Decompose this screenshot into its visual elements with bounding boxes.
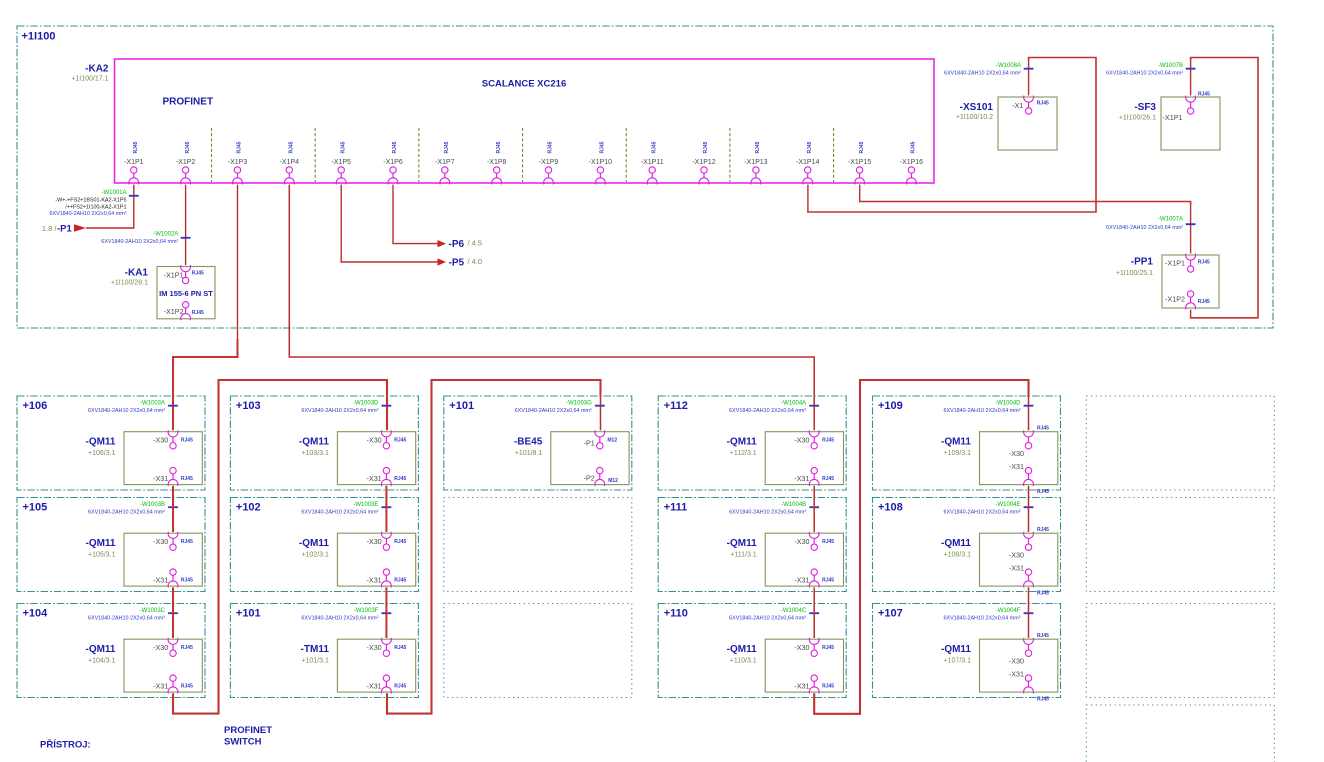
svg-text:-X30: -X30 (794, 537, 809, 546)
svg-text:-X30: -X30 (367, 643, 382, 652)
svg-text:-W1001A: -W1001A (101, 190, 126, 196)
svg-text:+1I100/28.1: +1I100/28.1 (111, 279, 148, 286)
switch port -X1P14 (RJ45) (796, 141, 819, 184)
svg-text:6XV1840-2AH10 2X2x0,64 mm²: 6XV1840-2AH10 2X2x0,64 mm² (101, 239, 178, 245)
svg-text:6XV1840-2AH10 2X2x0,64 mm²: 6XV1840-2AH10 2X2x0,64 mm² (944, 71, 1021, 77)
empty location box column6 row1 (1086, 396, 1274, 490)
svg-text:6XV1840-2AH10 2X2x0,64 mm²: 6XV1840-2AH10 2X2x0,64 mm² (1106, 225, 1183, 231)
svg-text:RJ45: RJ45 (181, 645, 193, 651)
svg-text:RJ45: RJ45 (600, 141, 606, 153)
label +104 (23, 608, 49, 620)
label +105 (23, 502, 48, 514)
port group separator 6 (729, 128, 731, 182)
connector -BE45 -P1 input (584, 430, 618, 449)
svg-text:RJ45: RJ45 (1198, 259, 1210, 265)
connector -QM11 -X30 input (794, 430, 834, 449)
svg-text:RJ45: RJ45 (444, 141, 450, 153)
cable -W1003G marker (515, 400, 605, 414)
svg-text:-X31: -X31 (1009, 462, 1024, 471)
label -TM11 +101 (301, 644, 330, 664)
cable -W1007A marker (1106, 216, 1196, 231)
location box +101 (444, 396, 632, 490)
device -QM11 +107 body (980, 639, 1058, 692)
svg-text:-W+-+FS2+1BS01-KA2-X1P5: -W+-+FS2+1BS01-KA2-X1P5 (55, 197, 126, 203)
caption PROFINET SWITCH (224, 725, 272, 748)
svg-text:-X1P3: -X1P3 (228, 159, 248, 166)
wire -X1P3 to +106 -QM11 -X30 (173, 339, 238, 430)
svg-text:+1I100/10.2: +1I100/10.2 (956, 114, 993, 121)
location box +112 (658, 396, 846, 490)
label -QM11 +106 (85, 437, 115, 457)
cable -W1007B marker (1106, 63, 1196, 76)
svg-text:6XV1840-2AH10 2X2x0,64 mm²: 6XV1840-2AH10 2X2x0,64 mm² (49, 211, 126, 217)
svg-text:PROFINET: PROFINET (224, 725, 272, 736)
svg-text:-W1004B: -W1004B (781, 502, 806, 508)
device -QM11 +102 body (337, 533, 415, 586)
svg-text:+112: +112 (664, 400, 688, 412)
cable -W1004F marker (943, 608, 1033, 622)
cable -W1002A marker (101, 232, 190, 246)
switch port -X1P6 (RJ45) (383, 141, 403, 184)
svg-text:RJ45: RJ45 (1198, 299, 1210, 305)
wire descent into +101 -BE45 -P1 (600, 396, 602, 430)
svg-text:6XV1840-2AH10 2X2x0,64 mm²: 6XV1840-2AH10 2X2x0,64 mm² (301, 616, 378, 622)
connector -KA1 -X1P2 (164, 302, 204, 321)
svg-text:RJ45: RJ45 (192, 271, 204, 277)
label -QM11 +108 (941, 538, 971, 558)
location box +106 (17, 396, 205, 490)
device -QM11 +106 body (124, 432, 202, 485)
svg-text:RJ45: RJ45 (1037, 590, 1049, 596)
svg-text:-P1: -P1 (584, 439, 595, 448)
svg-text:-W1004F: -W1004F (996, 608, 1021, 614)
label -KA1 (125, 268, 149, 279)
connector -QM11 -X31 output (794, 569, 834, 588)
svg-text:-P5: -P5 (449, 258, 465, 269)
svg-text:+106/3.1: +106/3.1 (88, 450, 116, 457)
svg-text:+110: +110 (664, 608, 688, 620)
empty location box column6 row3 (1086, 604, 1274, 698)
svg-text:+104/3.1: +104/3.1 (88, 657, 116, 664)
label -PP1 (1131, 257, 1154, 268)
svg-text:-W1003E: -W1003E (353, 502, 378, 508)
svg-text:-W1007A: -W1007A (1158, 216, 1183, 222)
location box +107 (873, 604, 1061, 698)
label -QM11 +110 (727, 644, 757, 664)
svg-text:-KA2: -KA2 (85, 64, 109, 75)
svg-text:+101: +101 (236, 608, 261, 620)
svg-text:+101/3.1: +101/3.1 (301, 657, 329, 664)
location box +1I100 (17, 26, 1273, 328)
label +111 (664, 502, 688, 514)
connector -QM11 -X30 input (1009, 633, 1049, 666)
switch port -X1P8 (RJ45) (487, 141, 507, 184)
cable -W1001A marker (49, 190, 138, 217)
svg-text:RJ45: RJ45 (1037, 100, 1049, 106)
svg-text:RJ45: RJ45 (1037, 696, 1049, 702)
connector -QM11 -X31 output (1009, 670, 1049, 703)
device -QM11 +109 body (980, 432, 1058, 485)
svg-text:-X1P2: -X1P2 (1165, 295, 1185, 304)
svg-text:-W1002A: -W1002A (153, 232, 178, 238)
label +110 (664, 608, 688, 620)
cross-reference +1I100/28.1 (111, 279, 148, 286)
svg-text:PROFINET: PROFINET (163, 97, 214, 108)
switch port -X1P9 (RJ45) (539, 141, 559, 184)
port group separator 3 (418, 128, 420, 182)
svg-text:6XV1840-2AH10 2X2x0,64 mm²: 6XV1840-2AH10 2X2x0,64 mm² (729, 616, 806, 622)
connector -SF3 -X1P1 (1163, 92, 1211, 122)
svg-text:+1I100: +1I100 (22, 31, 56, 43)
svg-text:-QM11: -QM11 (941, 644, 971, 655)
label -XS101 (960, 102, 994, 113)
cable -W1004C marker (729, 608, 819, 622)
svg-text:-QM11: -QM11 (85, 538, 115, 549)
svg-text:-QM11: -QM11 (299, 538, 329, 549)
connector -QM11 -X30 input (153, 638, 193, 657)
connector -QM11 -X31 output (1009, 564, 1049, 597)
connector -QM11 -X31 output (153, 675, 193, 694)
svg-text:-X30: -X30 (1009, 449, 1024, 458)
svg-text:-X31: -X31 (794, 682, 809, 691)
svg-text:-X1P10: -X1P10 (589, 159, 612, 166)
label +112 (664, 400, 688, 412)
svg-text:-W1003B: -W1003B (140, 502, 165, 508)
svg-text:-X1P9: -X1P9 (539, 159, 559, 166)
svg-text:-W1008A: -W1008A (996, 63, 1021, 69)
svg-text:6XV1840-2AH10 2X2x0,64 mm²: 6XV1840-2AH10 2X2x0,64 mm² (729, 408, 806, 414)
connector -TM11 -X30 input (367, 638, 407, 657)
svg-text:-QM11: -QM11 (299, 437, 329, 448)
connector -PP1 -X1P1 (1165, 254, 1210, 273)
svg-text:RJ45: RJ45 (1037, 425, 1049, 431)
svg-text:+111: +111 (664, 502, 688, 514)
svg-text:IM 155-6 PN ST: IM 155-6 PN ST (159, 289, 213, 298)
svg-text:+1I100/17.1: +1I100/17.1 (71, 76, 108, 83)
svg-text:PŘÍSTROJ:: PŘÍSTROJ: (40, 739, 91, 751)
ethernet switch -KA2 SCALANCE XC216 body (115, 59, 935, 183)
svg-text:+106: +106 (23, 400, 48, 412)
svg-text:+1I100/26.1: +1I100/26.1 (1119, 115, 1156, 122)
label -P5 / 4.0 (449, 257, 483, 269)
label +107 (878, 608, 903, 620)
svg-text:-X1P1: -X1P1 (124, 159, 144, 166)
label -QM11 +107 (941, 644, 971, 664)
svg-text:-QM11: -QM11 (727, 538, 757, 549)
label +106 (23, 400, 48, 412)
svg-text:-P6: -P6 (449, 239, 465, 250)
label 1.8 / -P1 (42, 224, 73, 235)
location box +111 (658, 498, 846, 592)
svg-text:RJ45: RJ45 (755, 141, 761, 153)
switch port -X1P12 (RJ45) (692, 141, 715, 184)
wire +104 -X31 to +103 -X30 (riser) (173, 380, 387, 714)
svg-text:RJ45: RJ45 (822, 684, 834, 690)
svg-text:RJ45: RJ45 (496, 141, 502, 153)
device -XS101 body (998, 97, 1057, 150)
svg-text:-X31: -X31 (1009, 670, 1024, 679)
device -TM11 +101 body (337, 639, 415, 692)
arrow interruption point -P6 (438, 240, 447, 247)
svg-text:6XV1840-2AH10 2X2x0,64 mm²: 6XV1840-2AH10 2X2x0,64 mm² (1106, 71, 1183, 77)
empty location box column6 row2 (1086, 498, 1274, 592)
port group separator 2 (314, 128, 316, 182)
label -P6 / 4.5 (449, 239, 483, 251)
svg-text:RJ45: RJ45 (822, 476, 834, 482)
svg-text:+112/3.1: +112/3.1 (730, 450, 757, 457)
switch port -X1P13 (RJ45) (744, 141, 767, 184)
label SCALANCE XC216 (482, 79, 566, 90)
connector -QM11 -X30 input (1009, 527, 1049, 560)
svg-text:-X30: -X30 (367, 537, 382, 546)
svg-text:RJ45: RJ45 (703, 141, 709, 153)
connector -QM11 -X31 output (1009, 462, 1049, 495)
svg-text:-X1P2: -X1P2 (176, 159, 196, 166)
svg-text:+101/8.1: +101/8.1 (515, 450, 543, 457)
svg-text:-X30: -X30 (153, 537, 168, 546)
svg-text:+109/3.1: +109/3.1 (944, 450, 972, 457)
svg-text:-X1P15: -X1P15 (848, 159, 871, 166)
svg-text:-XS101: -XS101 (960, 102, 994, 113)
wire -PP1 -X1P2 stub (1190, 310, 1192, 318)
svg-text:-X1P4: -X1P4 (280, 159, 300, 166)
svg-text:RJ45: RJ45 (394, 578, 406, 584)
svg-text:-QM11: -QM11 (941, 538, 971, 549)
svg-text:RJ45: RJ45 (651, 141, 657, 153)
svg-text:RJ45: RJ45 (394, 539, 406, 545)
svg-text:RJ45: RJ45 (1037, 527, 1049, 533)
svg-text:-X31: -X31 (1009, 564, 1024, 573)
svg-text:-PP1: -PP1 (1131, 257, 1154, 268)
location box +110 (658, 604, 846, 698)
svg-text:RJ45: RJ45 (822, 578, 834, 584)
svg-text:-X1P11: -X1P11 (641, 159, 664, 166)
svg-text:6XV1840-2AH10 2X2x0,64 mm²: 6XV1840-2AH10 2X2x0,64 mm² (88, 616, 165, 622)
svg-text:RJ45: RJ45 (822, 539, 834, 545)
wire column 1 row1 to row2 (172, 486, 174, 532)
wire descent into -XS101 (1028, 59, 1030, 95)
label -QM11 +103 (299, 437, 329, 457)
svg-text:-W1004E: -W1004E (995, 502, 1020, 508)
connector -QM11 -X30 input (1009, 425, 1049, 458)
connector -QM11 -X30 input (153, 532, 193, 551)
wire column 4 row2 to row3 (813, 587, 815, 638)
label +103 (236, 400, 261, 412)
caption PRISTROJ (40, 739, 91, 751)
svg-text:-X30: -X30 (794, 436, 809, 445)
svg-text:-KA1: -KA1 (125, 268, 149, 279)
label +101 (449, 400, 474, 412)
svg-text:-X1P1: -X1P1 (1163, 113, 1183, 122)
location box +109 (873, 396, 1061, 490)
svg-text:RJ45: RJ45 (340, 141, 346, 153)
svg-text:-X1P5: -X1P5 (331, 159, 351, 166)
svg-text:-X30: -X30 (153, 436, 168, 445)
svg-text:RJ45: RJ45 (289, 141, 295, 153)
svg-text:+102: +102 (236, 502, 261, 514)
svg-text:RJ45: RJ45 (181, 684, 193, 690)
svg-text:-W1004C: -W1004C (781, 608, 807, 614)
svg-text:+104: +104 (23, 608, 49, 620)
port group separator 5 (625, 128, 627, 182)
switch port -X1P1 (RJ45) (124, 141, 144, 184)
wire column 2 row2 to row3 (385, 587, 387, 638)
svg-text:+105: +105 (23, 502, 48, 514)
svg-text:RJ45: RJ45 (548, 141, 554, 153)
label +102 (236, 502, 261, 514)
connector -XS101 -X1 (1012, 96, 1049, 115)
svg-text:RJ45: RJ45 (181, 539, 193, 545)
svg-text:M12: M12 (608, 478, 618, 484)
svg-text:-X30: -X30 (367, 436, 382, 445)
svg-text:+105/3.1: +105/3.1 (88, 551, 116, 558)
wire -X1P6 to interruption point -P6 (393, 185, 438, 244)
switch port -X1P4 (RJ45) (280, 141, 300, 184)
wire descent into -SF3 (1190, 59, 1192, 95)
connector -QM11 -X30 input (794, 638, 834, 657)
switch port -X1P5 (RJ45) (331, 141, 351, 184)
svg-text:-X31: -X31 (794, 576, 809, 585)
svg-text:RJ45: RJ45 (822, 645, 834, 651)
svg-text:RJ45: RJ45 (859, 141, 865, 153)
label -SF3 (1134, 102, 1156, 113)
label PROFINET (163, 97, 214, 108)
connector -QM11 -X31 output (367, 569, 407, 588)
switch port -X1P2 (RJ45) (176, 141, 196, 184)
svg-text:+102/3.1: +102/3.1 (301, 551, 329, 558)
svg-text:-P1: -P1 (57, 224, 73, 235)
svg-text:-X31: -X31 (794, 474, 809, 483)
svg-text:6XV1840-2AH10 2X2x0,64 mm²: 6XV1840-2AH10 2X2x0,64 mm² (301, 408, 378, 414)
svg-text:-X31: -X31 (367, 682, 382, 691)
svg-text:+1I100/25.1: +1I100/25.1 (1116, 270, 1153, 277)
wire -X1P15 stub (859, 185, 861, 202)
location box +105 (17, 498, 205, 592)
svg-text:-X30: -X30 (1009, 657, 1024, 666)
wire descent into +109 (1028, 396, 1030, 430)
device -PP1 body (1162, 255, 1219, 308)
svg-text:6XV1840-2AH10 2X2x0,64 mm²: 6XV1840-2AH10 2X2x0,64 mm² (515, 408, 592, 414)
label -QM11 +111 (727, 538, 757, 558)
empty location box column3 row3 (444, 604, 632, 698)
svg-text:RJ45: RJ45 (181, 578, 193, 584)
svg-text:-X1P14: -X1P14 (796, 159, 819, 166)
svg-text:RJ45: RJ45 (394, 476, 406, 482)
connector -BE45 -P2 output (584, 467, 619, 486)
switch port -X1P10 (RJ45) (589, 141, 612, 184)
cable -W1004D marker (943, 400, 1033, 414)
svg-text:-X1P13: -X1P13 (744, 159, 767, 166)
label -QM11 +104 (85, 644, 115, 664)
cable -W1003A marker (88, 400, 178, 414)
svg-text:6XV1840-2AH10 2X2x0,64 mm²: 6XV1840-2AH10 2X2x0,64 mm² (943, 510, 1020, 516)
svg-text:RJ45: RJ45 (1198, 92, 1210, 98)
cable -W1004A marker (729, 400, 819, 414)
device -QM11 +112 body (765, 432, 843, 485)
device -QM11 +111 body (765, 533, 843, 586)
empty location box column6 row4 (clipped) (1086, 705, 1274, 762)
wire +110 -X31 to +109 -X30 (riser) (814, 380, 1028, 714)
arrow interruption point -P1 (74, 224, 86, 232)
svg-text:-X1P2: -X1P2 (164, 307, 184, 316)
svg-text:RJ45: RJ45 (911, 141, 917, 153)
connector -TM11 -X31 output (367, 675, 407, 694)
svg-text:RJ45: RJ45 (133, 141, 139, 153)
connector -QM11 -X31 output (153, 467, 193, 486)
location box +103 (230, 396, 418, 490)
svg-text:/ 4.5: / 4.5 (468, 239, 483, 248)
svg-text:-X31: -X31 (153, 576, 168, 585)
svg-text:-X1P1: -X1P1 (1165, 258, 1185, 267)
svg-text:-BE45: -BE45 (514, 437, 543, 448)
svg-text:RJ45: RJ45 (181, 438, 193, 444)
svg-text:RJ45: RJ45 (392, 141, 398, 153)
cross-reference +1I100/17.1 (71, 76, 108, 83)
svg-text:-W1003C: -W1003C (140, 608, 166, 614)
svg-text:M12: M12 (607, 437, 617, 443)
label IM 155-6 PN ST (159, 289, 213, 298)
svg-text:-X1P1: -X1P1 (164, 271, 184, 280)
connector -QM11 -X31 output (794, 675, 834, 694)
cable -W1003B marker (88, 502, 178, 516)
cable -W1003C marker (88, 608, 178, 622)
svg-text:-W1003A: -W1003A (140, 400, 165, 406)
label -QM11 +105 (85, 538, 115, 558)
connector -QM11 -X30 input (367, 532, 407, 551)
svg-text:-P2: -P2 (584, 473, 595, 482)
switch port -X1P7 (RJ45) (435, 141, 455, 184)
device -QM11 +105 body (124, 533, 202, 586)
wire column 5 row1 to row2 (1028, 486, 1030, 532)
cable -W1003D marker (301, 400, 391, 414)
svg-text:-X31: -X31 (153, 682, 168, 691)
cross-reference +1I100/26.1 (1119, 115, 1156, 122)
svg-text:/++FS2+1I100-KA2-X1P1: /++FS2+1I100-KA2-X1P1 (65, 205, 126, 211)
device -BE45 +101 body (551, 432, 629, 485)
switch port -X1P11 (RJ45) (641, 141, 664, 184)
svg-text:RJ45: RJ45 (185, 141, 191, 153)
svg-text:-QM11: -QM11 (85, 437, 115, 448)
svg-text:RJ45: RJ45 (807, 141, 813, 153)
svg-text:RJ45: RJ45 (192, 310, 204, 316)
device -SF3 body (1161, 97, 1220, 150)
wire -X1P3 stub (237, 185, 239, 340)
svg-text:-X1P8: -X1P8 (487, 159, 507, 166)
cross-reference +1I100/10.2 (956, 114, 993, 121)
svg-text:SCALANCE XC216: SCALANCE XC216 (482, 79, 566, 90)
svg-text:-X1: -X1 (1012, 101, 1023, 110)
svg-text:-W1007B: -W1007B (1158, 63, 1183, 69)
connector -QM11 -X30 input (794, 532, 834, 551)
svg-text:/ 4.0: / 4.0 (468, 257, 483, 266)
svg-text:+109: +109 (878, 400, 903, 412)
label +101 (236, 608, 261, 620)
wire -X1P4 to +112 -QM11 -X30 (289, 185, 814, 431)
svg-text:RJ45: RJ45 (822, 438, 834, 444)
wire column 2 row1 to row2 (385, 486, 387, 532)
svg-text:+107: +107 (878, 608, 903, 620)
connector -QM11 -X31 output (794, 467, 834, 486)
svg-text:+110/3.1: +110/3.1 (730, 657, 757, 664)
svg-text:RJ45: RJ45 (237, 141, 243, 153)
svg-text:RJ45: RJ45 (1037, 633, 1049, 639)
wire column 5 row2 to row3 (1028, 587, 1030, 638)
wire descent into -PP1 -X1P1 (1190, 203, 1192, 253)
wire column 4 row1 to row2 (813, 486, 815, 532)
svg-text:-W1004A: -W1004A (781, 400, 806, 406)
svg-text:+111/3.1: +111/3.1 (730, 551, 757, 558)
svg-text:-X1P6: -X1P6 (383, 159, 403, 166)
